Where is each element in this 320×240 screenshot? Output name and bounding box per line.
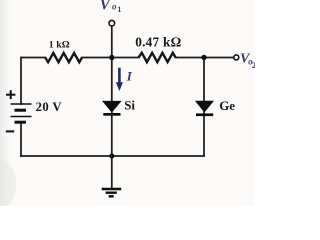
svg-text:o: o bbox=[112, 2, 117, 12]
svg-text:Ge: Ge bbox=[219, 98, 235, 113]
svg-text:2: 2 bbox=[252, 60, 255, 70]
svg-text:0.47 kΩ: 0.47 kΩ bbox=[135, 35, 181, 50]
svg-text:Si: Si bbox=[124, 98, 135, 113]
svg-text:1: 1 bbox=[117, 5, 121, 14]
svg-text:I: I bbox=[126, 69, 133, 84]
svg-text:20 V: 20 V bbox=[36, 100, 63, 114]
svg-text:V: V bbox=[100, 0, 112, 13]
svg-text:1 kΩ: 1 kΩ bbox=[49, 40, 70, 51]
